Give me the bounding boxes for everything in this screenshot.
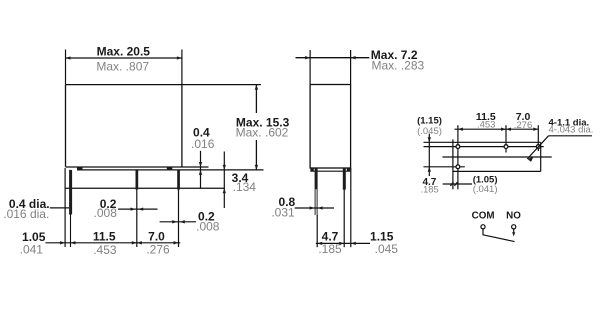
svg-text:.031: .031	[271, 205, 295, 219]
left view body edge extension line	[64, 168, 66, 247]
pad pattern hole 3	[536, 145, 540, 149]
svg-text:(.045): (.045)	[417, 126, 442, 137]
svg-text:.276: .276	[146, 243, 170, 257]
svg-text:Max. .807: Max. .807	[96, 59, 149, 73]
svg-text:11.5: 11.5	[93, 229, 116, 243]
pad pattern hole 1	[456, 145, 460, 149]
pad pattern right vertical	[540, 142, 542, 171]
svg-text:.045: .045	[375, 242, 399, 256]
schematic COM terminal	[481, 225, 485, 229]
left view top edge extension	[182, 84, 261, 86]
dimension Max. 7.2	[296, 50, 370, 85]
pad pattern hole column extensions	[458, 125, 538, 189]
schematic blade	[483, 229, 515, 241]
svg-text:.016 dia.: .016 dia.	[3, 207, 49, 221]
dimension 0.8 pin width	[295, 206, 334, 209]
left view standoff bump 1	[77, 167, 83, 170]
svg-text:.276: .276	[514, 120, 533, 131]
dimension 0.2 pin3	[160, 220, 197, 223]
pad pattern hole 2	[504, 145, 508, 149]
svg-text:COM: COM	[472, 210, 495, 221]
left view pin end line	[66, 187, 225, 189]
svg-text:.008: .008	[196, 220, 220, 234]
svg-text:.453: .453	[93, 243, 117, 257]
pad pattern middle line	[442, 156, 551, 158]
svg-text:.134: .134	[233, 180, 257, 194]
pad pattern lower hole line	[424, 166, 465, 168]
left view body	[66, 85, 182, 167]
leader 0.4 dia	[50, 207, 69, 209]
left view pin 1	[69, 170, 72, 247]
middle view pin left	[315, 168, 318, 247]
middle view standoff bump left	[310, 168, 313, 171]
left view standoff bump 2	[167, 167, 173, 170]
dimension 0.2 pin2	[118, 207, 157, 210]
svg-text:Max. 20.5: Max. 20.5	[97, 45, 151, 59]
svg-text:Max. .283: Max. .283	[372, 59, 425, 73]
pad pattern hole 4	[456, 165, 460, 169]
svg-text:.185: .185	[421, 185, 439, 195]
svg-text:(1.15): (1.15)	[417, 115, 442, 126]
dimension Max. 20.5	[66, 50, 182, 85]
left view case bottom line	[66, 166, 209, 168]
svg-text:(.041): (.041)	[473, 184, 498, 195]
schematic NO terminal	[512, 225, 516, 229]
pad pattern bottom line	[453, 170, 541, 172]
dimension Max. 15.3	[255, 85, 258, 170]
middle view body	[310, 85, 351, 169]
middle view seating line	[310, 170, 350, 172]
left view pin 2	[136, 170, 139, 247]
svg-text:7.0: 7.0	[148, 229, 165, 243]
dimension 0.4 standoff	[199, 151, 202, 189]
bottom dimension line middle view	[316, 242, 370, 245]
svg-text:4-.043 dia.: 4-.043 dia.	[549, 125, 594, 136]
left view seating line	[77, 169, 264, 171]
pad pattern left dimension column	[428, 134, 431, 176]
schematic NO arrow	[512, 229, 515, 236]
svg-text:.016: .016	[191, 137, 215, 151]
svg-text:Max. .602: Max. .602	[236, 126, 289, 140]
bottom dimension line left view	[46, 241, 181, 244]
svg-text:.185: .185	[318, 242, 342, 256]
dimension 3.4 pin length	[223, 152, 226, 209]
svg-text:.453: .453	[477, 120, 496, 131]
pad pattern outline top line	[424, 141, 541, 143]
dimension (1.05) pattern	[443, 182, 472, 186]
svg-text:.041: .041	[20, 242, 44, 256]
svg-text:.008: .008	[94, 206, 118, 220]
middle view standoff bump right	[347, 168, 350, 171]
svg-text:NO: NO	[506, 210, 521, 221]
pad pattern left vertical A	[452, 139, 454, 189]
pad pattern dimension line top	[455, 128, 539, 131]
leader 4-1.1 dia	[527, 136, 592, 162]
pad pattern hole row line	[424, 146, 544, 148]
middle view pin right	[343, 168, 346, 247]
middle view right edge extension	[350, 168, 352, 247]
left view pin 3	[177, 170, 180, 247]
